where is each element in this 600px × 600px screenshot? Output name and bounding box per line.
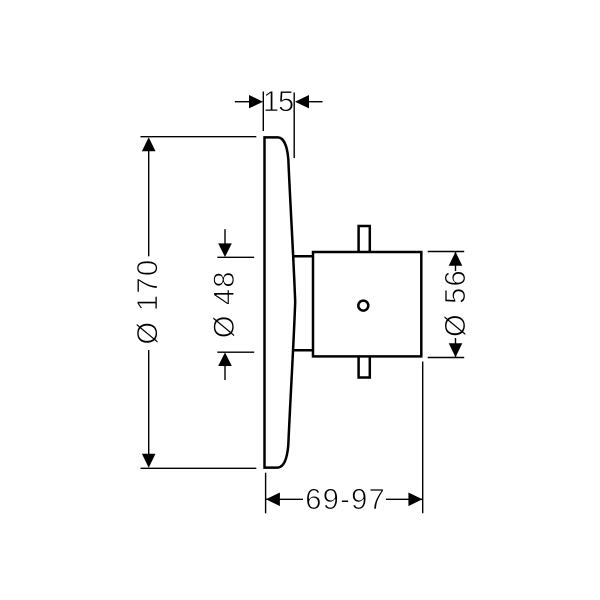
dim 15 left extension line bbox=[262, 92, 264, 132]
sleeve top edge bbox=[293, 255, 313, 258]
dim 170 bottom arrowhead bbox=[142, 454, 156, 468]
dim 170 top extension line bbox=[141, 136, 257, 138]
escutcheon plate curved right face bbox=[278, 137, 295, 467]
dim 15 right extension line bbox=[293, 93, 295, 159]
handle center pin bbox=[358, 301, 368, 311]
dim 15 right arrowhead bbox=[295, 95, 309, 108]
dim 48 bottom arrowhead bbox=[218, 352, 232, 366]
dim 15 label bbox=[265, 91, 293, 111]
dim 15 right leader bbox=[309, 101, 323, 103]
dim 15 left leader bbox=[235, 101, 250, 103]
top index tab bbox=[359, 226, 370, 252]
dim 56 lower leader bbox=[455, 338, 457, 358]
dim 48 top extension line bbox=[217, 256, 254, 258]
dim 56 label bbox=[444, 272, 466, 336]
handle body box bbox=[313, 252, 421, 356]
dim 56 top arrowhead bbox=[449, 252, 463, 266]
dim 170 top arrowhead bbox=[142, 137, 156, 151]
dim 56 bottom arrowhead bbox=[449, 343, 463, 357]
dim 48 top arrowhead bbox=[218, 243, 232, 257]
dim 69-97 line left segment bbox=[266, 498, 303, 500]
sleeve bottom edge bbox=[293, 349, 313, 352]
dim 69-97 right arrowhead bbox=[408, 493, 422, 507]
dim 69-97 left extension line bbox=[265, 473, 267, 514]
dim 48 top leader bbox=[224, 229, 226, 245]
dim 56 upper leader bbox=[455, 252, 457, 272]
dim 56 bottom extension line bbox=[428, 357, 465, 359]
dim 170 line upper segment bbox=[148, 150, 150, 256]
dim 69-97 left arrowhead bbox=[266, 493, 280, 507]
bottom index tab bbox=[359, 356, 370, 377]
dim 48 bottom extension line bbox=[217, 351, 254, 353]
dim 170 line lower segment bbox=[148, 350, 150, 455]
dim 170 bottom extension line bbox=[141, 467, 257, 469]
dim 170 label bbox=[136, 261, 158, 344]
dim 69-97 label bbox=[307, 489, 384, 510]
dim 69-97 right extension line bbox=[422, 362, 424, 514]
escutcheon plate left face and top/bottom edges bbox=[265, 137, 279, 467]
dim 48 bottom leader bbox=[224, 366, 226, 380]
dim 56 top extension line bbox=[428, 251, 465, 253]
dim 69-97 line right segment bbox=[386, 498, 422, 500]
dim 48 label bbox=[213, 273, 235, 337]
dim 15 left arrowhead bbox=[249, 95, 263, 108]
